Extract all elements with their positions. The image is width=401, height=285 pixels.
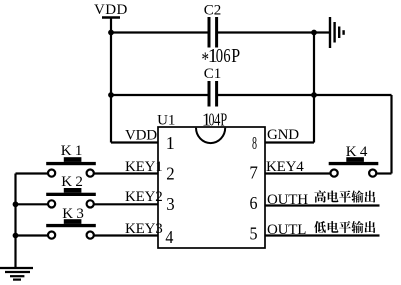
svg-text:OUTL: OUTL (267, 222, 306, 238)
svg-text:C2: C2 (204, 3, 222, 19)
svg-text:OUTH: OUTH (267, 192, 308, 208)
svg-text:0: 0 (216, 45, 223, 67)
svg-text:U1: U1 (157, 113, 175, 129)
svg-text:6: 6 (250, 193, 258, 213)
svg-text:GND: GND (267, 127, 299, 143)
svg-text:7: 7 (249, 162, 258, 182)
svg-text:KEY3: KEY3 (125, 221, 163, 237)
svg-text:KEY1: KEY1 (125, 159, 163, 175)
svg-text:VDD: VDD (94, 2, 128, 18)
svg-text:P: P (231, 45, 240, 67)
svg-text:4: 4 (165, 227, 173, 247)
svg-text:2: 2 (166, 164, 174, 184)
svg-text:K2: K2 (61, 174, 86, 190)
svg-text:1: 1 (166, 133, 175, 153)
svg-text:8: 8 (252, 133, 257, 153)
svg-text:6: 6 (223, 45, 230, 67)
svg-text:K4: K4 (346, 144, 371, 160)
svg-text:3: 3 (166, 194, 174, 214)
svg-text:K1: K1 (61, 143, 86, 159)
svg-text:K3: K3 (62, 206, 87, 222)
svg-text:5: 5 (250, 223, 258, 243)
svg-text:KEY4: KEY4 (266, 159, 304, 175)
svg-text:KEY2: KEY2 (125, 189, 163, 205)
svg-text:VDD: VDD (125, 128, 157, 144)
svg-text:P: P (220, 109, 227, 129)
